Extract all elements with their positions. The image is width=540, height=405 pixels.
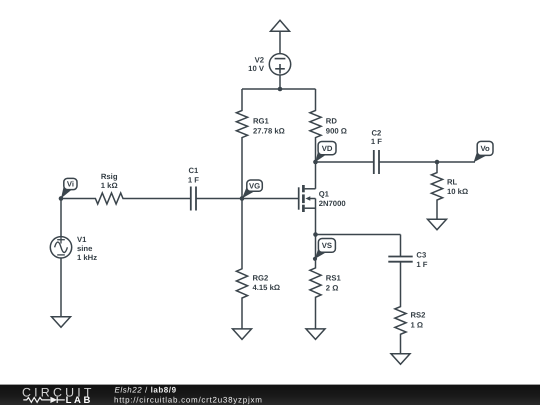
svg-text:2 Ω: 2 Ω [326,283,339,292]
svg-text:C2: C2 [371,128,381,137]
wire supply rail [242,88,316,90]
svg-text:Vo: Vo [480,144,490,153]
node flag Vi [59,178,77,200]
capacitor C1 [191,187,196,211]
ground RS1 [306,329,325,340]
wire C3 branch down [400,235,402,257]
resistor RS1 [310,235,321,329]
svg-text:Elsh22 / lab8/9: Elsh22 / lab8/9 [115,385,177,394]
resistor RG1 [236,89,247,199]
label RL value [447,177,468,196]
svg-text:VG: VG [249,181,260,190]
resistor RL [431,162,442,219]
svg-text:VS: VS [322,241,332,250]
svg-text:V2: V2 [255,55,264,64]
svg-text:10 V: 10 V [248,64,265,73]
wire gate VG to Q1 [242,198,299,200]
label C2 value [371,128,382,146]
label Rsig value [101,172,118,190]
wire drain to C2 [316,161,374,163]
footer url [114,395,263,404]
resistor RS2 [395,262,406,354]
label V2 10 V [248,55,265,73]
svg-text:27.78 kΩ: 27.78 kΩ [253,126,285,135]
svg-text:RG2: RG2 [253,273,269,282]
capacitor C2 [374,150,379,174]
svg-text:2N7000: 2N7000 [319,199,346,208]
label RG1 value [253,117,285,136]
svg-text:1 F: 1 F [371,137,382,146]
wire Vi to V1 [60,199,62,237]
capacitor C3 [388,257,412,262]
label V1 sine 1 kHz [77,235,97,262]
ground RS2 [391,354,410,365]
wire V2 to supply rail [279,75,281,89]
svg-text:sine: sine [77,244,93,253]
svg-text:RS2: RS2 [411,311,426,320]
junction supply rail [278,87,283,92]
svg-text:RS1: RS1 [326,274,342,283]
label C3 value [416,250,427,269]
node flag VD [313,142,336,164]
voltage source V2 [269,54,290,75]
ground RL [428,219,447,230]
svg-text:RD: RD [326,117,338,126]
node flag VS [313,239,336,261]
junction drain node [313,160,318,165]
wire Q1 source pin [315,199,317,235]
CircuitLab logo [22,385,95,405]
wire VCC arrow to V2 [279,31,281,54]
svg-text:Q1: Q1 [319,190,330,199]
svg-text:C3: C3 [416,250,426,259]
svg-text:1 F: 1 F [188,175,199,184]
resistor Rsig [61,193,191,204]
wire V1 to ground [60,258,62,317]
footer title Elsh22 / lab8/9 [115,385,177,394]
svg-text:1 kΩ: 1 kΩ [101,181,118,190]
svg-text:LAB: LAB [66,395,93,405]
label RS1 value [326,274,342,293]
voltage source V1 [50,236,71,258]
label RS2 value [411,311,426,330]
junction RL node [435,160,440,165]
svg-text:900 Ω: 900 Ω [326,126,347,135]
transistor Q1 [299,185,316,212]
svg-text:1 Ω: 1 Ω [411,320,424,329]
label C1 value [188,166,199,184]
svg-text:Rsig: Rsig [101,172,118,181]
label RG2 value [253,273,281,292]
footer bar [0,385,540,405]
svg-text:Vi: Vi [67,180,74,189]
ground V1 [52,317,71,328]
resistor RD [310,89,321,162]
svg-text:C1: C1 [188,166,199,175]
svg-text:RL: RL [447,177,458,186]
power supply VCC arrow [271,20,290,31]
svg-text:10 kΩ: 10 kΩ [447,187,468,196]
junction source node [313,232,318,237]
svg-text:http://circuitlab.com/crt2u38y: http://circuitlab.com/crt2u38yzpjxm [114,395,263,404]
resistor RG2 [236,199,247,329]
label Q1 2N7000 [319,190,346,208]
junction Vi [59,196,64,201]
wire C1 to VG [196,198,242,200]
svg-text:V1: V1 [77,235,87,244]
node flag VG [240,180,262,200]
node flag Vo [474,141,493,162]
wire Q1 drain pin [315,162,317,189]
svg-text:RG1: RG1 [253,117,270,126]
svg-text:1 kHz: 1 kHz [77,253,97,262]
junction VG [240,196,245,201]
wire C2 to Vo [379,161,475,163]
label RD value [326,117,347,136]
ground RG2 [233,329,252,340]
wire source to C3 branch [316,234,401,236]
svg-text:1 F: 1 F [416,260,427,269]
svg-text:4.15 kΩ: 4.15 kΩ [253,283,281,292]
svg-text:VD: VD [322,144,333,153]
